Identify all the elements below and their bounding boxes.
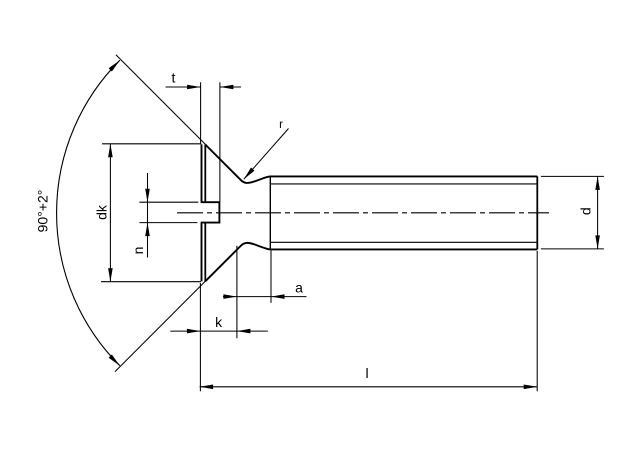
svg-text:d: d <box>578 207 594 215</box>
cone extension construction line bottom <box>115 281 205 371</box>
d dimension line <box>597 176 599 249</box>
head cone bottom and shank bottom outline <box>205 243 537 281</box>
n arrow top <box>145 189 150 203</box>
k and l shared extension line left <box>199 283 201 391</box>
d arrow top <box>595 176 600 190</box>
thread minor line bottom <box>270 241 537 243</box>
r leader line <box>244 129 289 180</box>
n extension line top <box>139 201 198 203</box>
l arrow right <box>524 385 538 390</box>
l arrow left <box>200 385 214 390</box>
head cone top and shank top outline <box>205 145 537 183</box>
r leader arrow <box>242 168 254 181</box>
svg-text:k: k <box>215 314 223 330</box>
t arrow left <box>187 85 201 90</box>
t extension line left <box>200 82 202 143</box>
head face inner line <box>204 144 206 281</box>
d arrow bottom <box>595 235 600 249</box>
t extension line right <box>219 82 221 201</box>
a arrow left <box>223 294 237 299</box>
dk extension line bottom <box>101 281 201 283</box>
t arrow right <box>220 85 234 90</box>
svg-text:r: r <box>279 119 283 131</box>
t dimension line right tail <box>220 86 241 88</box>
a arrow right <box>271 294 285 299</box>
dk extension line top <box>102 143 201 145</box>
arc arrow bottom <box>109 355 122 368</box>
a extension line right <box>270 251 272 303</box>
svg-text:dk: dk <box>94 204 110 220</box>
full-thread boundary line <box>269 176 271 249</box>
d extension line bottom <box>541 248 604 250</box>
k arrow left <box>187 329 201 334</box>
n dimension line <box>147 173 149 258</box>
t dimension line left tail <box>166 86 201 88</box>
n extension line bottom <box>139 222 197 224</box>
head face outer line <box>201 144 203 281</box>
svg-text:a: a <box>295 280 303 296</box>
arc arrow top <box>109 59 122 72</box>
shank end face <box>536 176 538 249</box>
k dimension line <box>170 330 267 332</box>
k arrow right <box>237 329 251 334</box>
centerline axis <box>177 212 549 214</box>
slot <box>201 202 220 222</box>
svg-text:l: l <box>365 365 368 381</box>
dk arrow bottom <box>108 268 113 282</box>
dk arrow top <box>108 144 113 158</box>
d extension line top <box>541 175 604 177</box>
thread minor line top <box>270 183 537 185</box>
svg-text:t: t <box>172 70 176 86</box>
l dimension line <box>200 386 538 388</box>
k extension line right <box>236 246 238 338</box>
a dimension line <box>223 296 307 298</box>
cone extension construction line top <box>116 55 205 145</box>
angle arc <box>57 60 120 365</box>
n arrow bottom <box>145 223 150 237</box>
dk dimension line <box>109 144 111 282</box>
l extension line right <box>536 251 538 391</box>
svg-text:n: n <box>130 247 146 255</box>
svg-text:90°+2°: 90°+2° <box>35 190 51 233</box>
